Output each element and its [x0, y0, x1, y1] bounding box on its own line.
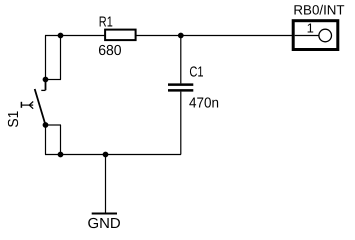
switch S1	[6, 80, 46, 128]
wire: top horizontal of lower loop	[45, 124, 61, 126]
svg-text:680: 680	[98, 43, 121, 59]
switch S1 actuator arrowhead	[29, 102, 33, 109]
connector RB0/INT	[293, 3, 344, 50]
wire: right vertical of upper loop	[60, 36, 62, 80]
node: junction dot at top wire / upper loop vertical	[58, 33, 64, 39]
node: junction dot at lower loop / bottom net	[58, 152, 64, 158]
switch S1 fixed contact seat tick	[41, 89, 45, 91]
connector pin lead	[295, 35, 319, 37]
wire: bottom horizontal net (switch to capacitor)	[45, 154, 181, 156]
node: junction dot at ground stem / bottom net	[103, 152, 109, 158]
connector pin circle	[319, 29, 332, 42]
capacitor C1 top plate	[168, 83, 193, 86]
connector RB0/INT outline box	[293, 21, 338, 50]
wire: ground stem	[105, 155, 107, 213]
capacitor C1 bottom plate	[168, 89, 193, 92]
node: junction dot at switch S1 top contact	[43, 77, 49, 83]
switch S1 fixed contact stub	[45, 80, 47, 91]
wire: right vertical of lower loop	[60, 125, 62, 155]
svg-text:C1: C1	[189, 64, 203, 80]
svg-text:S1: S1	[6, 111, 22, 128]
wire: capacitor upper lead	[180, 36, 182, 84]
wire: top horizontal net (switch to connector RB0/INT)	[45, 35, 293, 37]
svg-text:GND: GND	[88, 216, 121, 232]
capacitor C1	[168, 64, 219, 111]
resistor R1 body box	[105, 30, 136, 40]
node: junction dot at top wire / capacitor branch	[178, 33, 184, 39]
switch S1 movable arm	[35, 89, 46, 125]
switch S1 actuator shaft	[21, 104, 33, 106]
svg-text:470n: 470n	[189, 96, 219, 112]
wire: left vertical of lower loop	[45, 125, 47, 155]
resistor R1	[98, 14, 135, 59]
wire: bottom horizontal of upper loop	[45, 79, 61, 81]
ground GND	[88, 214, 121, 233]
wire: capacitor lower lead	[180, 92, 182, 155]
svg-text:RB0/INT: RB0/INT	[293, 3, 344, 18]
switch S1 actuator end bar	[20, 102, 22, 108]
ground bar	[92, 213, 117, 215]
svg-text:1: 1	[307, 21, 314, 36]
wire: left vertical of upper loop down to switch top contact	[45, 36, 47, 80]
node: junction dot at switch S1 bottom contact	[43, 122, 49, 128]
svg-text:R1: R1	[99, 14, 113, 30]
